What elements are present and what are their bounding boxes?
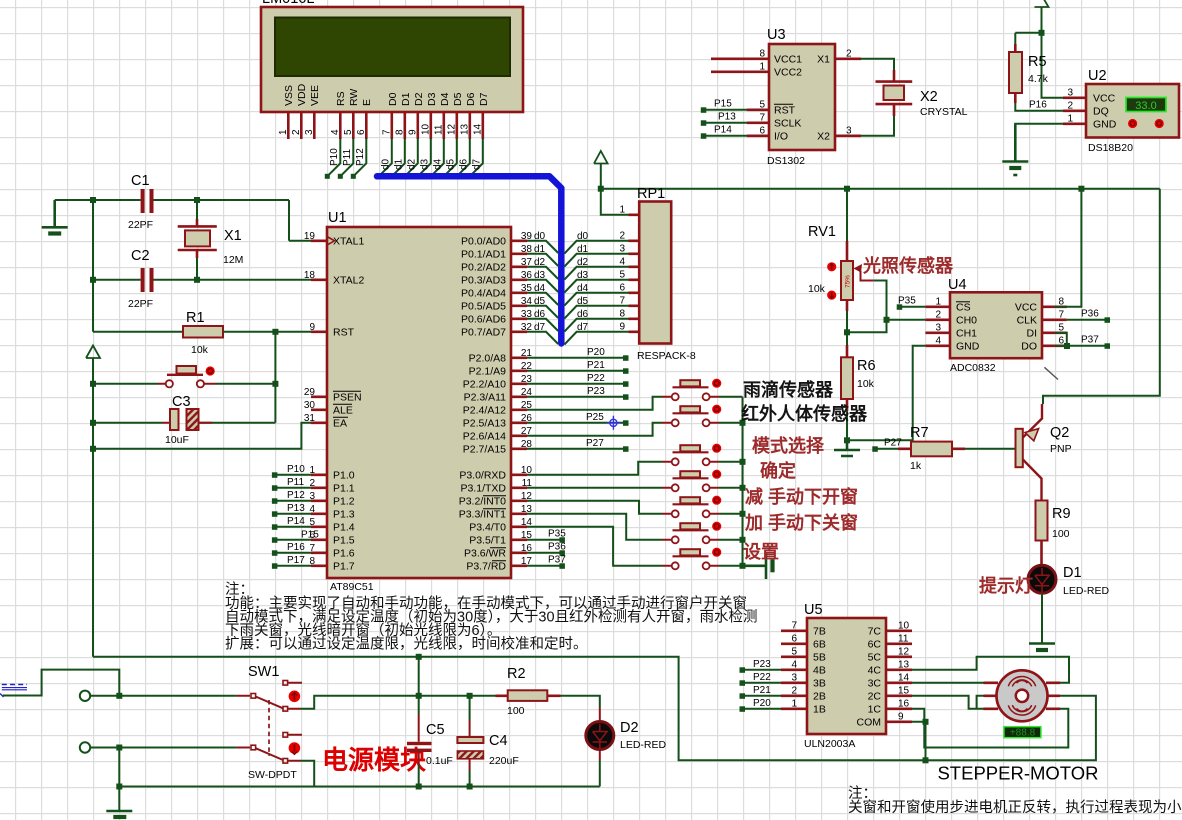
svg-text:d2: d2: [534, 257, 546, 268]
wire 1C to motor (bottom loop): [912, 709, 1068, 748]
svg-text:P14: P14: [714, 124, 732, 135]
svg-text:P36: P36: [548, 541, 566, 552]
svg-text:光照传感器: 光照传感器: [862, 255, 954, 276]
svg-text:P23: P23: [587, 386, 605, 397]
svg-text:30: 30: [304, 400, 316, 411]
U3 pin numbers: [759, 48, 765, 136]
svg-text:P2.1/A9: P2.1/A9: [469, 365, 507, 377]
svg-text:2B: 2B: [813, 690, 826, 702]
stray diagonal mark: [1044, 367, 1058, 379]
wire button feed b7 (P3.4): [527, 527, 662, 566]
svg-text:16: 16: [898, 698, 910, 709]
wire C1 net: [55, 200, 313, 241]
svg-text:d3: d3: [577, 270, 589, 281]
push button reset: [158, 366, 216, 387]
push button b6: [662, 522, 721, 544]
svg-text:d0: d0: [534, 231, 546, 242]
svg-text:3: 3: [1067, 87, 1073, 98]
svg-text:d4: d4: [534, 283, 546, 294]
svg-text:P2.3/A11: P2.3/A11: [464, 391, 507, 403]
svg-text:6: 6: [791, 633, 797, 644]
wire LCD P12: [353, 138, 366, 176]
LED D1: [1028, 565, 1110, 597]
svg-text:7C: 7C: [868, 625, 882, 637]
svg-text:XTAL2: XTAL2: [333, 274, 364, 286]
svg-text:RS: RS: [335, 91, 347, 106]
svg-text:PNP: PNP: [1050, 443, 1072, 455]
node junction t1: [116, 693, 122, 699]
node junction button right: [272, 381, 278, 387]
svg-text:5: 5: [791, 646, 797, 657]
wire button feed b4 (P3.1): [527, 487, 662, 489]
U2 pin stubs: [1063, 98, 1086, 124]
resistor R7: [898, 425, 965, 472]
svg-text:P3.1/TXD: P3.1/TXD: [460, 482, 506, 494]
svg-text:7: 7: [759, 112, 765, 123]
svg-text:22PF: 22PF: [128, 219, 153, 231]
stepper motor: [937, 670, 1098, 783]
svg-text:Q2: Q2: [1050, 425, 1069, 441]
node junction C5 top: [416, 693, 422, 699]
battery (left edge, blue): [0, 685, 27, 698]
net labels P15 P13 P14: [714, 98, 736, 135]
resistor R9: [1036, 501, 1071, 566]
svg-text:P10: P10: [329, 148, 340, 166]
svg-text:14: 14: [898, 672, 910, 683]
svg-text:P21: P21: [587, 360, 605, 371]
wire EA/VCC: [93, 423, 313, 449]
RP1 pin stubs: [629, 215, 640, 332]
svg-text:100: 100: [1052, 528, 1070, 540]
svg-text:7: 7: [1058, 309, 1064, 320]
svg-text:9: 9: [408, 129, 419, 135]
wire COM: [912, 722, 926, 761]
U3 right pin stubs: [835, 59, 861, 136]
svg-text:8: 8: [759, 48, 765, 59]
capacitor C5: [407, 657, 453, 787]
U3 pin names: [774, 53, 802, 142]
wire button feed b3 (P3.0): [527, 462, 662, 475]
svg-text:I/O: I/O: [774, 130, 788, 142]
svg-text:RST: RST: [774, 104, 796, 116]
push button b1: [662, 379, 721, 401]
node junction COM/rail: [923, 757, 929, 763]
wire button feed b2 (P2.6): [527, 423, 662, 436]
svg-text:D1: D1: [400, 92, 412, 106]
svg-text:6B: 6B: [813, 638, 826, 650]
svg-text:d6: d6: [534, 309, 546, 320]
node junctions button rail: [740, 420, 746, 569]
svg-text:4B: 4B: [813, 664, 826, 676]
svg-text:P3.7/RD: P3.7/RD: [466, 560, 506, 572]
svg-text:P20: P20: [587, 347, 605, 358]
svg-text:P36: P36: [1081, 308, 1099, 319]
wire RV1 wiper to CH0: [847, 281, 925, 333]
svg-text:4: 4: [619, 256, 625, 267]
svg-text:3C: 3C: [868, 677, 882, 689]
node junction wiper/CH0: [884, 317, 890, 323]
svg-text:提示灯: 提示灯: [979, 575, 1033, 596]
wire U3 X1 to crystal: [861, 59, 894, 70]
push button b3: [662, 444, 721, 466]
wire button feed b6 (P3.3): [527, 514, 662, 540]
wires P2.0-P2.3 to net squares: [527, 358, 626, 397]
resistor pack RP1: [637, 186, 696, 362]
svg-text:P27: P27: [884, 437, 902, 448]
stepper motor pins: [984, 683, 1061, 709]
svg-text:9: 9: [619, 321, 625, 332]
svg-text:D2: D2: [620, 720, 639, 736]
svg-text:DS18B20: DS18B20: [1088, 142, 1133, 154]
svg-text:P3.4/T0: P3.4/T0: [469, 521, 506, 533]
svg-text:U3: U3: [767, 27, 786, 43]
svg-text:10uF: 10uF: [165, 434, 189, 446]
node junction X1 top: [194, 197, 200, 203]
svg-text:P1.7: P1.7: [333, 560, 355, 572]
switch SW1: [237, 664, 302, 781]
wire R7 to Q2 base: [965, 448, 1016, 450]
svg-text:RESPACK-8: RESPACK-8: [637, 350, 696, 362]
node junction C1/ground rail: [90, 197, 96, 203]
wire P2.5 net P25: [527, 422, 626, 424]
svg-text:C1: C1: [131, 173, 150, 189]
wires P35 P36 P37 from U1: [527, 540, 562, 566]
svg-text:31: 31: [304, 413, 316, 424]
capacitor C3: [93, 394, 212, 446]
wire SW1 pole2 out: [301, 761, 315, 787]
IC U2 DS18B20: [1086, 68, 1179, 154]
node junction EA wire: [90, 446, 96, 452]
svg-text:设置: 设置: [743, 542, 779, 562]
svg-text:7B: 7B: [813, 625, 826, 637]
LCD pin numbers rotated: [278, 123, 484, 135]
svg-text:VSS: VSS: [283, 85, 295, 106]
node end P11: [338, 174, 343, 179]
svg-text:4.7k: 4.7k: [1028, 73, 1049, 85]
svg-text:9: 9: [309, 322, 315, 333]
svg-text:P12: P12: [287, 490, 305, 501]
svg-text:DI: DI: [1027, 327, 1038, 339]
wire terminal1 to SW1: [91, 695, 237, 697]
svg-text:P1.5: P1.5: [333, 534, 355, 546]
svg-text:P35: P35: [898, 295, 916, 306]
svg-text:P1.4: P1.4: [333, 521, 355, 533]
svg-text:33.0: 33.0: [1135, 100, 1156, 112]
svg-text:P15: P15: [714, 98, 732, 109]
svg-text:2: 2: [846, 48, 852, 59]
svg-text:8: 8: [395, 129, 406, 135]
svg-text:XTAL1: XTAL1: [333, 235, 364, 247]
svg-text:P0.3/AD3: P0.3/AD3: [461, 274, 506, 286]
svg-text:ADC0832: ADC0832: [950, 362, 996, 374]
svg-text:5C: 5C: [868, 651, 882, 663]
wire RV1 top: [846, 189, 848, 241]
ground (R6): [834, 440, 860, 456]
notes text: [225, 581, 758, 653]
capacitor C4: [457, 696, 518, 787]
svg-text:PSEN: PSEN: [333, 391, 362, 403]
ground (buttons, rotated): [743, 553, 767, 579]
terminal circle 2: [80, 742, 90, 752]
svg-text:RST: RST: [333, 326, 355, 338]
svg-text:6: 6: [619, 282, 625, 293]
node junction t2: [116, 745, 122, 751]
svg-text:d0: d0: [577, 231, 589, 242]
svg-text:5: 5: [619, 269, 625, 280]
svg-text:VDD: VDD: [296, 83, 308, 106]
svg-text:R9: R9: [1052, 506, 1071, 522]
svg-text:d1: d1: [577, 244, 589, 255]
node end P12: [351, 174, 356, 179]
wire motor right loop: [926, 696, 1096, 761]
wire ground stem: [118, 787, 120, 811]
svg-text:P2.4/A12: P2.4/A12: [463, 404, 506, 416]
wire VCC rail y189: [601, 188, 1160, 190]
node junction RV1 bottom: [844, 329, 850, 335]
svg-text:6: 6: [1058, 335, 1064, 346]
svg-text:1: 1: [759, 61, 765, 72]
svg-text:P1.6: P1.6: [333, 547, 355, 559]
svg-text:P1.0: P1.0: [333, 469, 355, 481]
svg-text:模式选择: 模式选择: [752, 435, 825, 456]
U5 left pin stubs: [781, 631, 807, 709]
LCD pin stubs 1-14: [288, 112, 483, 139]
svg-text:12M: 12M: [223, 254, 243, 266]
svg-text:GND: GND: [956, 340, 980, 352]
wire t2 to ground: [118, 748, 120, 787]
svg-text:加 手动下关窗: 加 手动下关窗: [744, 512, 858, 533]
U4 pin stubs: [925, 307, 1066, 346]
wires P0 chevrons left of bus: [527, 241, 558, 344]
svg-text:ALE: ALE: [333, 404, 353, 416]
svg-text:D1: D1: [1063, 565, 1082, 581]
svg-text:E: E: [361, 99, 373, 106]
wire button left: [93, 383, 158, 385]
svg-text:R6: R6: [857, 358, 876, 374]
svg-text:0.1uF: 0.1uF: [426, 755, 453, 767]
svg-text:d2: d2: [407, 158, 418, 170]
svg-text:RW: RW: [348, 89, 360, 106]
svg-text:COM: COM: [857, 716, 882, 728]
svg-text:10k: 10k: [857, 378, 875, 390]
svg-text:4: 4: [330, 129, 341, 135]
svg-text:P1.1: P1.1: [333, 482, 355, 494]
svg-text:U5: U5: [804, 602, 823, 618]
node junction rail/RP1: [598, 186, 604, 192]
wire button feed b1 (P2.4): [527, 397, 662, 410]
svg-text:VCC: VCC: [1093, 92, 1116, 104]
svg-text:10k: 10k: [191, 344, 209, 356]
wire 3C to motor: [912, 682, 984, 684]
wire button right: [216, 383, 275, 385]
svg-text:关窗和开窗使用步进电机正反转，执行过程表现为小步运动: 关窗和开窗使用步进电机正反转，执行过程表现为小步运动: [848, 798, 1182, 816]
net labels d0-d7 right of bus: [577, 231, 589, 333]
svg-text:d6: d6: [577, 309, 589, 320]
RP1 pin numbers: [619, 204, 625, 332]
svg-text:5: 5: [343, 129, 354, 135]
svg-text:R5: R5: [1028, 54, 1047, 70]
svg-text:C2: C2: [131, 248, 150, 264]
wire U2 GND: [1015, 124, 1063, 161]
net labels d0-d7 left of bus: [534, 231, 546, 333]
svg-text:D0: D0: [387, 92, 399, 106]
wires chevrons right of bus to RP1: [564, 241, 628, 345]
svg-text:P2.6/A14: P2.6/A14: [463, 430, 506, 442]
svg-text:红外人体传感器: 红外人体传感器: [741, 403, 868, 424]
wire 4C to motor (top loop): [912, 657, 1069, 683]
push button b4: [662, 470, 721, 492]
wire U4 CLK to P36: [1067, 319, 1107, 321]
LCD pin names rotated: [283, 83, 490, 106]
svg-text:d1: d1: [534, 244, 546, 255]
svg-text:P14: P14: [287, 516, 305, 527]
svg-text:P2.0/A8: P2.0/A8: [469, 352, 507, 364]
svg-text:DS1302: DS1302: [767, 155, 805, 167]
svg-text:2: 2: [791, 685, 797, 696]
wire R6 bottom / U4 GND: [847, 346, 925, 441]
U1 right pin names: [459, 235, 507, 572]
U1 right pin numbers: [521, 231, 533, 567]
wires P23-P20 to U5: [742, 670, 781, 709]
node junction C3 left: [90, 420, 96, 426]
svg-text:EA: EA: [333, 417, 347, 429]
svg-text:P16: P16: [287, 542, 305, 553]
wire left vertical x93: [93, 200, 183, 332]
wire button feed b5 (P3.2): [527, 501, 662, 514]
svg-text:P2.2/A10: P2.2/A10: [463, 378, 506, 390]
svg-text:18: 18: [304, 270, 316, 281]
svg-text:13: 13: [898, 659, 910, 670]
svg-text:11: 11: [434, 124, 445, 135]
wire R2 to D2: [561, 696, 600, 707]
U4 pin numbers: [935, 296, 1064, 346]
svg-text:VEE: VEE: [309, 85, 321, 106]
svg-text:d5: d5: [534, 296, 546, 307]
node junction rail/RV1: [844, 186, 850, 192]
svg-text:D3: D3: [426, 92, 438, 106]
IC U5 ULN2003A: [804, 602, 886, 750]
svg-text:5: 5: [1058, 322, 1064, 333]
note bottom right: [848, 785, 1182, 816]
svg-text:RV1: RV1: [808, 224, 836, 240]
svg-text:75%: 75%: [845, 275, 852, 288]
U5 pin numbers: [791, 620, 797, 709]
node ends P15 P13 P14: [701, 107, 707, 113]
LCD body: [261, 7, 523, 112]
svg-text:P13: P13: [287, 503, 305, 514]
wire RP1 pin1 feed: [601, 189, 630, 215]
svg-text:12: 12: [447, 123, 458, 135]
svg-text:3: 3: [791, 672, 797, 683]
svg-text:8: 8: [1058, 296, 1064, 307]
svg-text:确定: 确定: [760, 460, 796, 481]
node junction VCC arrow: [1039, 30, 1045, 36]
svg-text:U2: U2: [1088, 68, 1107, 84]
node end P10: [325, 174, 330, 179]
power arrow (above RP1): [594, 151, 608, 189]
wires P1.0-P1.7 net stubs: [274, 475, 311, 566]
bus (blue): [377, 176, 561, 343]
push button b5: [662, 496, 721, 518]
svg-text:X2: X2: [920, 89, 938, 105]
wire R5 to DQ: [1015, 103, 1063, 111]
svg-text:1B: 1B: [813, 703, 826, 715]
svg-text:P0.4/AD4: P0.4/AD4: [461, 287, 506, 299]
resistor R2: [496, 666, 561, 717]
svg-text:X1: X1: [817, 53, 830, 65]
svg-text:3: 3: [304, 129, 315, 135]
svg-text:ULN2003A: ULN2003A: [804, 738, 855, 750]
resistor R1: [183, 310, 223, 356]
node ends P20-P23: [623, 355, 629, 361]
svg-text:P17: P17: [287, 555, 305, 566]
svg-text:1: 1: [619, 204, 625, 215]
svg-text:R7: R7: [910, 425, 929, 441]
wires buttons right connections: [719, 397, 743, 566]
svg-text:SW-DPDT: SW-DPDT: [248, 769, 297, 781]
svg-text:10: 10: [898, 620, 910, 631]
svg-text:d4: d4: [433, 158, 444, 170]
IC U4 ADC0832: [948, 277, 1042, 374]
svg-text:P3.2/INT0: P3.2/INT0: [459, 495, 506, 507]
svg-text:RP1: RP1: [637, 186, 665, 202]
net labels P20-P23: [587, 347, 605, 397]
svg-text:R2: R2: [507, 666, 526, 682]
svg-text:P0.7/AD7: P0.7/AD7: [461, 326, 506, 338]
svg-text:P12: P12: [355, 148, 366, 166]
svg-text:d4: d4: [577, 283, 589, 294]
wire C2 net: [93, 279, 313, 281]
wire U4 VCC up to rail: [1054, 189, 1081, 307]
svg-text:CLK: CLK: [1017, 314, 1037, 326]
wire P27 to R7: [878, 448, 899, 450]
node junction C4 top: [467, 693, 473, 699]
svg-text:100: 100: [507, 705, 525, 717]
svg-text:220uF: 220uF: [489, 755, 519, 767]
capacitor C2: [128, 248, 154, 310]
svg-text:d7: d7: [577, 322, 589, 333]
svg-text:X1: X1: [224, 228, 242, 244]
ground (top-left): [42, 200, 68, 234]
resistor R6: [841, 345, 876, 411]
svg-text:P27: P27: [586, 438, 604, 449]
net labels P10 P11 P12 rotated: [329, 148, 483, 170]
svg-text:D6: D6: [465, 92, 477, 106]
U1 body AT89C51: [327, 210, 511, 593]
svg-text:P3.0/RXD: P3.0/RXD: [459, 469, 506, 481]
wire U4 DO to P37: [1055, 345, 1107, 347]
svg-text:P1.2: P1.2: [333, 495, 355, 507]
svg-text:1: 1: [791, 698, 797, 709]
wire VCC rail y657: [93, 657, 926, 761]
wire P35: [899, 306, 925, 308]
svg-text:GND: GND: [1093, 118, 1117, 130]
svg-text:C5: C5: [426, 722, 445, 738]
node junction rail/ground: [116, 784, 122, 790]
svg-text:9: 9: [898, 711, 904, 722]
svg-text:+88.8: +88.8: [1010, 728, 1036, 739]
svg-text:P0.2/AD2: P0.2/AD2: [461, 261, 506, 273]
svg-text:d3: d3: [534, 270, 546, 281]
IC U3 DS1302: [767, 27, 835, 167]
svg-text:P15: P15: [301, 529, 319, 540]
svg-text:U1: U1: [328, 210, 347, 226]
U1 left pin stubs: [311, 241, 327, 566]
crystal X1: [178, 200, 244, 280]
svg-text:P10: P10: [287, 464, 305, 475]
svg-text:19: 19: [304, 231, 316, 242]
svg-text:d1: d1: [394, 158, 405, 170]
